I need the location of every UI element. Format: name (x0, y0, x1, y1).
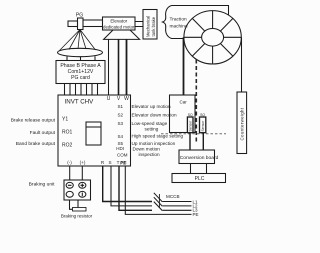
svg-text:Braking resistor: Braking resistor (61, 213, 93, 218)
svg-text:RO1: RO1 (62, 130, 73, 136)
svg-text:dedicated motor: dedicated motor (103, 24, 135, 29)
svg-text:(+): (+) (80, 160, 86, 165)
svg-text:S2: S2 (117, 112, 123, 117)
svg-text:High speed stage setting: High speed stage setting (132, 133, 184, 138)
svg-text:inspection: inspection (139, 152, 161, 157)
svg-text:Band brake output: Band brake output (16, 141, 56, 147)
svg-text:Down motion: Down motion (133, 146, 161, 151)
svg-text:COM: COM (117, 153, 128, 158)
svg-text:Com1+12V: Com1+12V (68, 69, 94, 75)
svg-text:S1: S1 (117, 104, 123, 109)
svg-text:PE: PE (121, 160, 127, 165)
svg-text:Elevator: Elevator (110, 19, 127, 24)
svg-text:PLC: PLC (195, 176, 205, 182)
svg-text:Sensor: Sensor (201, 120, 205, 132)
svg-text:setting: setting (145, 126, 159, 131)
svg-text:(-): (-) (67, 160, 72, 165)
svg-text:Up motion inspection: Up motion inspection (132, 141, 176, 146)
svg-text:Car: Car (180, 100, 188, 105)
svg-text:W: W (124, 96, 129, 102)
svg-text:PG card: PG card (71, 75, 90, 81)
svg-text:T: T (117, 160, 120, 165)
svg-text:Y1: Y1 (62, 117, 68, 123)
svg-text:Sensor: Sensor (189, 120, 193, 132)
svg-text:Fault output: Fault output (30, 130, 56, 136)
svg-text:SQ: SQ (188, 113, 193, 117)
svg-text:Counterweight: Counterweight (240, 107, 245, 140)
svg-text:machine: machine (170, 24, 188, 30)
svg-text:Elevator up motion: Elevator up motion (132, 104, 171, 109)
svg-text:RO2: RO2 (62, 143, 73, 149)
svg-text:U: U (107, 96, 111, 102)
svg-text:Elevator down motion: Elevator down motion (132, 112, 177, 117)
svg-text:S4: S4 (117, 134, 123, 139)
svg-text:Conversion board: Conversion board (180, 155, 219, 161)
svg-text:INVT CHV: INVT CHV (65, 98, 95, 105)
svg-text:Traction: Traction (170, 17, 187, 23)
svg-text:Braking unit: Braking unit (29, 182, 55, 188)
svg-text:S: S (108, 160, 111, 165)
svg-text:SQ: SQ (200, 113, 205, 117)
svg-text:Brake release output: Brake release output (11, 117, 56, 123)
svg-text:S5: S5 (117, 141, 123, 146)
svg-text:PG: PG (76, 12, 83, 18)
svg-text:Low-speed stage: Low-speed stage (132, 121, 168, 126)
svg-text:S3: S3 (117, 121, 123, 126)
svg-text:HDI: HDI (116, 146, 124, 151)
svg-text:PE: PE (193, 212, 199, 217)
svg-text:MCCB: MCCB (166, 194, 180, 199)
svg-text:Mechanical: Mechanical (145, 16, 150, 37)
svg-text:tank brake: tank brake (151, 16, 156, 36)
